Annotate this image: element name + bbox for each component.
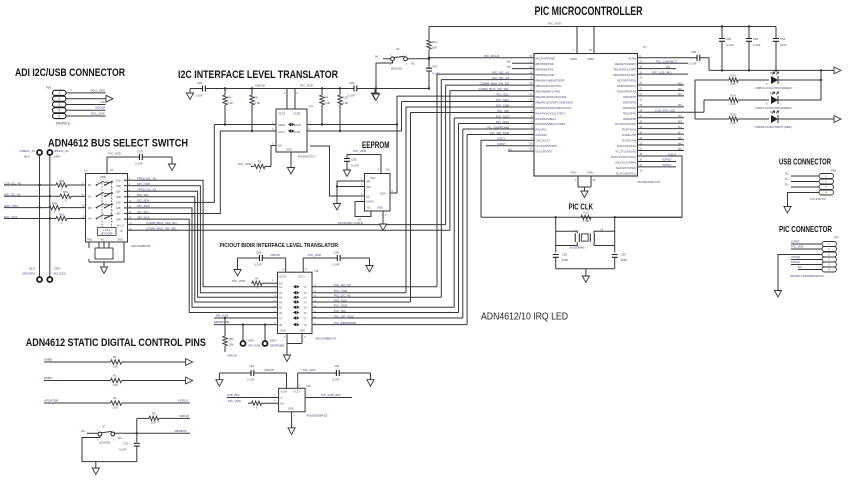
svg-text:EN: EN [281, 403, 285, 406]
wire net D- [638, 133, 685, 135]
U7 left pin 14 RB4/AN11/KBI0/CSSPP [529, 78, 564, 83]
wire EEPROM left loop to bus [310, 146, 365, 196]
svg-text:U3: U3 [309, 104, 313, 108]
svg-text:2.0K: 2.0K [325, 101, 331, 105]
wire net D+ [638, 128, 685, 130]
LED D33 red [755, 110, 834, 129]
svg-text:5: 5 [58, 114, 60, 118]
svg-text:U6: U6 [386, 168, 390, 172]
U7 left pin 18 MCLR/VPP/RE3 [529, 56, 555, 61]
wire U3 SCLA to bus [220, 130, 276, 132]
U2 switch element D3 [82, 204, 113, 211]
ground for U3 [287, 168, 294, 175]
U7 bottom pins VSS1 VSS2 [570, 171, 596, 188]
svg-text:SDO_SDA: SDO_SDA [90, 88, 106, 92]
wire NC stub U7 right [638, 106, 685, 108]
svg-text:C90: C90 [691, 50, 697, 54]
U7 left pin 7 RA5/AN4/SS/HLVDIN/C2OUT [531, 105, 572, 110]
wire crystal top right link [594, 231, 615, 233]
svg-text:D-: D- [785, 177, 788, 181]
U7 left pin 5 RA3/AN3/VREF+ [531, 116, 557, 121]
svg-text:VDD18: VDD18 [95, 106, 105, 110]
svg-text:R11: R11 [432, 40, 437, 44]
svg-text:VDD2: VDD2 [587, 57, 594, 61]
IC U7 PIC18F4550 microcontroller [534, 45, 661, 184]
svg-text:0.1UF: 0.1UF [332, 263, 340, 267]
svg-text:R52: R52 [229, 337, 235, 341]
capacitor C39 22PF [612, 253, 628, 269]
wire R15 feed vertical [694, 80, 696, 119]
svg-text:PIC_VDD: PIC_VDD [238, 162, 252, 166]
U7 right pin 29 OSC2/CLKO/RA6 [615, 160, 643, 165]
wire PIC_SDA vertical link [401, 102, 403, 132]
svg-text:P66: P66 [831, 169, 836, 173]
svg-text:VDD18: VDD18 [178, 399, 188, 403]
wire SCL_SCK from P63 pin5 [66, 115, 106, 117]
svg-text:LCB_IRQ_LED: LCB_IRQ_LED [655, 109, 676, 113]
wire EEPROM SDA pin 5 [390, 190, 397, 193]
wire S7 ground loop [82, 436, 137, 462]
U2 switch element D1 [82, 181, 113, 188]
U7 right pin 31 RC1/T1OSI/UOE [616, 149, 643, 154]
ground for S7 loop [92, 468, 99, 475]
svg-text:PIC_SDI: PIC_SDI [334, 309, 346, 313]
capacitor C92 PIC_VDD side [303, 251, 369, 267]
ground for EEPROM [379, 224, 386, 231]
switch S2 [375, 47, 429, 71]
svg-text:SMB0: SMB0 [44, 358, 53, 362]
svg-text:SCL_SCK: SCL_SCK [4, 215, 18, 219]
wire crystal top left link [556, 231, 578, 233]
svg-text:NC/ICDT/ICPGD: NC/ICDT/ICPGD [616, 166, 636, 170]
svg-text:PIC_LCB_IRQ: PIC_LCB_IRQ [652, 70, 672, 74]
U8 channel symbol 6 [293, 311, 300, 314]
wire PIC_VDD rail segment right [357, 88, 429, 90]
capacitor C78 [119, 442, 140, 462]
ground for C85 [343, 170, 350, 177]
svg-text:10K: 10K [229, 343, 234, 347]
wire VDD18 from P63 pin4 [66, 109, 106, 111]
svg-text:C38/I2C_A0: C38/I2C_A0 [19, 149, 35, 153]
svg-text:S7: S7 [102, 425, 106, 429]
U8 channel symbol 5 [293, 306, 300, 309]
svg-text:Y1: Y1 [600, 228, 604, 232]
svg-text:0.1UF: 0.1UF [347, 94, 355, 98]
junction dots on test point verticals [38, 184, 51, 220]
U2 output pin S1A [116, 178, 133, 183]
svg-text:RD3/SPP3: RD3/SPP3 [623, 100, 637, 104]
svg-text:CMD67-21VGC/TR8 (GREEN): CMD67-21VGC/TR8 (GREEN) [755, 86, 792, 90]
U8 pin A8 [274, 323, 282, 327]
wire net NC USB pin1 [791, 175, 819, 177]
wire U3 VCCA stub [286, 89, 288, 110]
wire net PIC_SCK from U8 [312, 298, 411, 302]
resistor R50 [56, 212, 67, 225]
svg-text:RB0/AN12/INT0/FLT0/SDI/SDA: RB0/AN12/INT0/FLT0/SDI/SDA [536, 100, 574, 104]
wire test point vertical ORG [49, 155, 51, 277]
svg-text:R50: R50 [59, 212, 65, 216]
wire U3 VCCB stub [294, 89, 296, 110]
svg-text:RD6/SPP6/P1C: RD6/SPP6/P1C [617, 84, 636, 88]
svg-text:PCA9517D-T: PCA9517D-T [298, 155, 316, 159]
svg-text:PIC CONNECTOR: PIC CONNECTOR [779, 225, 832, 234]
svg-text:RB1/AN10/INT1/SCK/SCL: RB1/AN10/INT1/SCK/SCL [536, 95, 568, 99]
svg-text:A2: A2 [366, 194, 370, 198]
svg-text:R3: R3 [113, 396, 117, 400]
wire PIC_VDD top rail [429, 22, 776, 27]
svg-text:PAD: PAD [87, 238, 92, 242]
wire net OSC2 to crystal rail [615, 152, 682, 217]
svg-text:U2: U2 [84, 169, 88, 173]
svg-text:NC: NC [798, 265, 802, 269]
svg-text:NC/ICCK/ICPGC: NC/ICCK/ICPGC [616, 171, 636, 175]
wire U2 VDD pin 18 stub [106, 157, 108, 174]
svg-text:SCLB: SCLB [294, 130, 301, 134]
svg-text:EEPROM: EEPROM [362, 140, 390, 151]
resistor R15 2.0K [695, 113, 769, 126]
svg-text:SPI_CSB: SPI_CSB [137, 182, 150, 186]
svg-text:RE1/AN6/CK2SPP: RE1/AN6/CK2SPP [613, 68, 636, 72]
svg-text:RD7/SPP7/P1D: RD7/SPP7/P1D [617, 79, 636, 83]
svg-text:C78: C78 [123, 442, 129, 446]
svg-text:ORG: ORG [54, 267, 61, 271]
svg-text:WP: WP [366, 179, 370, 183]
svg-text:C81: C81 [726, 37, 732, 41]
svg-text:SDAA: SDAA [278, 123, 285, 127]
svg-text:PIC18F4550-I/PT: PIC18F4550-I/PT [638, 180, 662, 184]
wire net NC PIC conn pin6 [798, 269, 822, 271]
svg-text:CMD28-21VRC/TR8/T1 (RED): CMD28-21VRC/TR8/T1 (RED) [755, 125, 792, 129]
wire crystal left branch [555, 217, 557, 252]
svg-text:RE0/AN5/CK1SPP: RE0/AN5/CK1SPP [613, 73, 636, 77]
U7 right pin 27 RE2/AN7/OESPP [615, 61, 643, 66]
U2 switch element D4 [82, 215, 113, 222]
U8 pin Y5 [304, 306, 317, 310]
U2 pin EN_N [117, 222, 132, 227]
U7 right pin 24 RD7/SPP7/P1D [617, 78, 643, 83]
svg-text:RA3/AN3/VREF+: RA3/AN3/VREF+ [536, 117, 557, 121]
resistor R11 10K [427, 27, 438, 58]
wire net ICPGC PIC conn pin5 [791, 264, 822, 266]
svg-text:VCCB: VCCB [293, 112, 300, 116]
U8 pin Y4 [304, 300, 317, 304]
svg-text:8001000: 8001000 [391, 67, 402, 71]
svg-text:PIC_EEPROMB: PIC_EEPROMB [334, 321, 356, 325]
U8 pin Y7 [304, 316, 317, 320]
svg-text:R1: R1 [113, 355, 117, 359]
U8 channel symbol 7 [293, 316, 300, 319]
ground below PIC_VDD rail at S2 [375, 89, 377, 95]
svg-text:TRX8_I2C_A0: TRX8_I2C_A0 [137, 177, 157, 181]
wire net PIC_SDI from U8 [312, 309, 459, 313]
svg-text:EEPROMB: EEPROMB [270, 344, 284, 348]
wire U3 SCLB row [307, 130, 402, 132]
U7 left pin 4 RA2/AN2/VREF-/CVREF [531, 121, 566, 126]
capacitor C83 10UF [773, 27, 787, 72]
arrow net SMB0 [186, 359, 193, 366]
wire net PIC_I2C_A1 from U8 [312, 294, 441, 298]
wire S2 pin4 to rail [376, 61, 393, 89]
svg-text:RB6/KBI2/PGC: RB6/KBI2/PGC [536, 68, 554, 72]
svg-text:VDD18: VDD18 [227, 354, 237, 358]
svg-text:U7: U7 [643, 45, 647, 49]
wire net PIC_MCLR [429, 57, 534, 59]
wire net PIC_SCK [454, 114, 534, 307]
svg-text:PIC_LCB_IRQ: PIC_LCB_IRQ [321, 393, 341, 397]
test point TP C38/I2C_A0 BLU [19, 149, 42, 159]
U7 right pin 30 RC0/T1OSO/T13CKI [611, 154, 643, 159]
U8 channel symbol 1 [293, 285, 300, 288]
svg-text:RA0/AN0: RA0/AN0 [536, 133, 548, 137]
wire net SPI_SCK from U2 [133, 219, 278, 312]
svg-text:S1B: S1B [116, 185, 121, 188]
wire net PIC_I2C_A1 [437, 70, 534, 286]
svg-text:PIC_SDO: PIC_SDO [334, 304, 348, 308]
wire EEPROM GND stub [383, 211, 387, 224]
svg-text:DECODER: DECODER [101, 232, 113, 235]
svg-text:SPI_SCK: SPI_SCK [137, 215, 150, 219]
test point TP ORG EEPROMB [263, 323, 285, 347]
svg-text:VDD18: VDD18 [255, 84, 265, 88]
ground for U8 [283, 355, 290, 362]
svg-text:SCL: SCL [366, 185, 372, 189]
svg-text:GND: GND [280, 330, 286, 333]
svg-text:ICRST: ICRST [497, 142, 506, 146]
svg-text:22PF: 22PF [621, 258, 628, 262]
wire net I2C_SDA from U2 [133, 125, 214, 203]
U7 left pin 16 RB6/KBI2/PGC [529, 67, 553, 72]
svg-text:1: 1 [58, 91, 60, 95]
ground for C94 [367, 373, 374, 386]
wire net D+ USB pin3 [791, 186, 819, 188]
wire crystal ground stub [585, 269, 587, 276]
svg-text:RC5/D+/VP: RC5/D+/VP [622, 133, 636, 137]
svg-text:BLU: BLU [29, 267, 35, 271]
U2 output pin S2B [116, 194, 133, 199]
svg-text:R12: R12 [583, 211, 589, 215]
U8 pin A6 [274, 311, 282, 315]
wire R4 to RESETB junction [136, 418, 138, 442]
U7 right pin 19 RD2/SPP2 [623, 105, 643, 110]
svg-text:PIC_CSB: PIC_CSB [334, 289, 347, 293]
U8 channel symbol 3 [293, 296, 300, 299]
wire crystal right branch [614, 217, 616, 252]
svg-text:VCCY: VCCY [294, 391, 301, 394]
svg-text:I2C INTERFACE LEVEL TRANSLATOR: I2C INTERFACE LEVEL TRANSLATOR [178, 69, 338, 81]
wire R14 feed vertical [703, 100, 705, 112]
svg-text:PIC_VDD: PIC_VDD [303, 368, 317, 372]
wire net SDO_SDA to U2 pin D3 [4, 207, 49, 209]
svg-text:RC0/T1OSO/T13CKI: RC0/T1OSO/T13CKI [611, 155, 636, 159]
svg-text:ORG: ORG [248, 339, 254, 343]
arrow net PIC_VDD rail right [834, 67, 841, 74]
svg-text:RD0/SPP0: RD0/SPP0 [623, 117, 637, 121]
svg-text:RA4/T0CKI/C1OUT/RCV: RA4/T0CKI/C1OUT/RCV [536, 111, 566, 115]
svg-text:PIC_I2C_A1: PIC_I2C_A1 [334, 294, 351, 298]
svg-text:3: 3 [58, 103, 60, 107]
svg-text:D3: D3 [88, 206, 92, 210]
svg-text:ICPGD: ICPGD [662, 158, 672, 162]
svg-text:SDI/I2C_A1: SDI/I2C_A1 [54, 149, 70, 153]
capacitor C82 [746, 25, 761, 71]
svg-text:A1/NC: A1/NC [366, 199, 374, 203]
svg-text:PIC_CSB: PIC_CSB [496, 103, 509, 107]
U7 left pin 6 RA4/T0CKI/C1OUT/RCV [531, 111, 566, 116]
U8 GND and PAD pins [280, 330, 307, 356]
U7 right pin 26 RE1/AN6/CK2SPP [613, 67, 642, 72]
wire net ICRST PIC conn pin1 [791, 243, 822, 245]
wire NC stub U7 right [638, 95, 685, 97]
wire ground stub below S7 loop [95, 462, 97, 468]
svg-text:PIC_SPI_SCB: PIC_SPI_SCB [490, 131, 509, 135]
svg-text:SAMTEC TSW10608GSD PIN: SAMTEC TSW10608GSD PIN [790, 275, 824, 278]
svg-text:EN: EN [278, 144, 282, 148]
svg-text:C92: C92 [334, 251, 340, 255]
U7 right pin 20 RD3/SPP3 [623, 100, 643, 105]
resistor R8 2.0K pullup [223, 87, 234, 125]
U8 pin A1 [274, 285, 282, 289]
wire net TRX8_I2C_A1 from U2 [133, 191, 278, 297]
resistor R12 [581, 211, 591, 224]
U8 channel symbol 2 [293, 291, 300, 294]
svg-text:VDD18: VDD18 [264, 368, 274, 372]
resistor R51 [60, 190, 71, 203]
svg-text:ADG3301BKSZ: ADG3301BKSZ [306, 414, 327, 418]
svg-text:SCL_SCK: SCL_SCK [91, 112, 106, 116]
svg-text:2.0K: 2.0K [343, 101, 349, 105]
svg-text:R9: R9 [255, 96, 259, 100]
svg-text:D4: D4 [88, 217, 92, 221]
svg-text:0.1UF: 0.1UF [689, 62, 697, 66]
svg-text:D+: D+ [678, 125, 682, 129]
svg-text:S2B: S2B [116, 196, 121, 199]
wire crystal pin1 bottom [556, 242, 578, 245]
svg-text:SDI_I2C_A1: SDI_I2C_A1 [4, 193, 21, 197]
wire net PIC_CSB from U8 [312, 289, 406, 293]
svg-text:4: 4 [58, 109, 60, 113]
svg-text:C85: C85 [351, 158, 357, 162]
svg-text:IN: IN [120, 230, 123, 233]
IC U6 AT24C08C EEPROM [338, 168, 390, 226]
svg-text:C82: C82 [753, 37, 759, 41]
svg-text:VCC: VCC [370, 176, 376, 180]
svg-text:D+: D+ [785, 183, 789, 187]
U8 pin A7 [274, 316, 282, 320]
svg-text:20.000MHZ: 20.000MHZ [570, 246, 585, 250]
wire net COMM_BUS_3W_EN [446, 81, 534, 224]
wire net PIC_CONNECT [638, 60, 689, 64]
wire net PIC_LCB_IRQ from U4 Y [305, 393, 352, 397]
svg-text:VCCA: VCCA [279, 276, 286, 279]
test point TP SDO/SDA BLU bottom [22, 267, 42, 283]
svg-text:U4: U4 [307, 384, 311, 388]
wire net PIC_SDO [459, 120, 535, 313]
svg-text:10UF: 10UF [780, 43, 787, 47]
svg-text:PIC_I2C_A1: PIC_I2C_A1 [492, 70, 509, 74]
svg-text:2.0K: 2.0K [228, 101, 234, 105]
wire net UPDATEB with resistor R3 [44, 396, 190, 410]
connector P63 [46, 86, 70, 126]
svg-text:0.1UF: 0.1UF [432, 72, 440, 76]
wire net PIC_SDO from U8 [312, 304, 454, 308]
connector P67 [790, 236, 839, 278]
svg-text:PIC_SCK: PIC_SCK [496, 114, 509, 118]
wire net ICPGD PIC conn pin4 [791, 259, 822, 261]
U7 right pin 13 NC/ICCK/ICPGC [616, 171, 643, 176]
svg-text:SPI_OCB: SPI_OCB [248, 344, 260, 348]
svg-text:PIC_EEPROMB: PIC_EEPROMB [487, 125, 509, 129]
resistor R52 10K pullup [223, 317, 237, 358]
wire U3 SDAB row [307, 124, 397, 126]
U8 pin A4 [274, 300, 282, 304]
svg-text:ICPGC: ICPGC [662, 163, 672, 167]
svg-text:NC/ICRST/ICVPP: NC/ICRST/ICVPP [536, 144, 558, 148]
svg-text:VDD18: VDD18 [179, 414, 189, 418]
U7 left pin 34 NC/ICRST/ICVPP [529, 143, 557, 148]
capacitor C80 [190, 81, 205, 98]
svg-text:VSS2: VSS2 [587, 171, 594, 175]
svg-text:ADN4612 STATIC DIGITAL CONTROL: ADN4612 STATIC DIGITAL CONTROL PINS [26, 337, 206, 349]
U7 left pin 1 OSC1/CLKI [531, 138, 550, 143]
svg-text:RB5/KBI1/PGM: RB5/KBI1/PGM [536, 73, 555, 77]
svg-text:10K: 10K [432, 46, 437, 50]
wire net 3W_OCB to U8 A7 [214, 314, 278, 318]
svg-text:2.0K: 2.0K [730, 121, 736, 125]
svg-text:SPI_SDI: SPI_SDI [137, 193, 149, 197]
wire U8 VCCY stub [303, 258, 308, 272]
wire U3 GND stub [290, 152, 292, 168]
wire net PIC_SPI_SCB [467, 131, 534, 325]
U2 output pin S4B [116, 217, 133, 222]
wire NC stub U7 right [638, 89, 685, 91]
LED D32 green [755, 91, 821, 110]
svg-text:PIC_VDD: PIC_VDD [548, 22, 562, 26]
svg-text:U8: U8 [315, 269, 319, 273]
wire net SCL_SCK to U2 pin D4 [4, 218, 56, 220]
wire VDD1 stub pin 7 [570, 27, 577, 62]
wire P63 pin2 with bus arrow [66, 98, 106, 100]
svg-text:C79: C79 [137, 150, 143, 154]
svg-text:R15: R15 [730, 113, 736, 117]
svg-text:PIC_I2C_A0: PIC_I2C_A0 [334, 283, 351, 287]
wire test point vertical BLU [39, 155, 41, 277]
U7 right pin 8 VUSB [629, 56, 642, 61]
svg-text:ICPGC: ICPGC [791, 260, 800, 264]
svg-text:ADN4612 BUS SELECT SWITCH: ADN4612 BUS SELECT SWITCH [48, 138, 188, 150]
svg-text:ICRST: ICRST [791, 240, 800, 244]
IC U8 ADG3308BCPZ level translator [278, 269, 337, 341]
svg-text:0.1UF: 0.1UF [332, 378, 340, 382]
svg-text:S1A: S1A [116, 179, 121, 182]
arrow net IRQ LED right [834, 116, 841, 123]
svg-text:VDD1: VDD1 [570, 57, 577, 61]
U7 right pin 25 RE0/AN5/CK1SPP [613, 72, 642, 77]
ground for C80 [189, 89, 191, 94]
wire net PIC_I2C_A0 [441, 76, 534, 297]
svg-text:2: 2 [58, 97, 60, 101]
svg-text:PIC_VDD: PIC_VDD [300, 84, 314, 88]
svg-text:PIC_SDO: PIC_SDO [496, 120, 510, 124]
wire net COMM_BUS_3W_SEL [128, 229, 450, 231]
wire NC stub U7 right [638, 84, 685, 86]
svg-text:NC: NC [358, 218, 362, 222]
U7 right pin 35 RC6/TX/CK [622, 127, 643, 132]
wire VUSB to capacitor C90 [638, 57, 698, 59]
IC U3 PCA9517D-T level translator [272, 104, 316, 159]
wire NC stub U7 right [638, 139, 685, 141]
U7 left pin 35 NC/ICPORTS [529, 149, 552, 154]
wire SDO_SDA from P63 pin1 [66, 92, 106, 94]
